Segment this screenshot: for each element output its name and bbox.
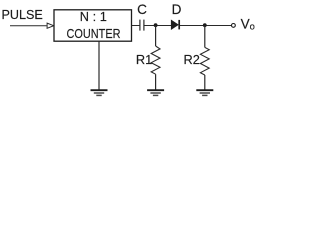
capacitor C plates (139, 20, 141, 31)
resistor R2 branch wire from junction (204, 26, 206, 48)
svg-text:V: V (241, 17, 250, 32)
resistor R1 branch wire from junction (155, 26, 157, 47)
svg-text:R2: R2 (184, 52, 200, 67)
resistor R2 zigzag (200, 47, 209, 75)
svg-text:PULSE: PULSE (2, 8, 43, 22)
wire diode to output terminal (180, 25, 231, 27)
ground under R1 (147, 90, 164, 95)
diode D (171, 20, 178, 29)
svg-text:C: C (137, 2, 147, 17)
svg-text:COUNTER: COUNTER (67, 26, 121, 41)
open arrowhead into counter (47, 23, 54, 28)
svg-text:N : 1: N : 1 (80, 9, 107, 24)
svg-text:o: o (250, 21, 255, 32)
wire counter output to capacitor (132, 25, 140, 27)
wire R1 to ground (155, 74, 157, 90)
ground under R2 (196, 90, 213, 95)
wire counter bottom to ground (98, 41, 100, 90)
ground under counter (91, 90, 108, 95)
node junction dot R2 (203, 23, 207, 27)
node junction dot R1 (154, 23, 158, 27)
wire capacitor to diode (144, 25, 171, 27)
wire pulse input line (10, 25, 47, 27)
counter U1 box (54, 10, 132, 41)
wire R2 to ground (204, 75, 206, 90)
svg-text:R1: R1 (136, 52, 152, 67)
output terminal circle (232, 24, 236, 28)
resistor R1 zigzag (151, 46, 160, 74)
svg-text:D: D (172, 2, 182, 17)
